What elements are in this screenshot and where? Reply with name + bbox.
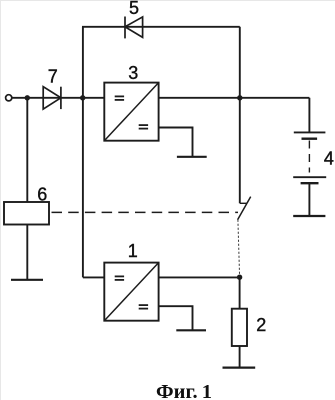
battery 4 xyxy=(293,132,326,215)
wire right branch vertical xyxy=(239,27,241,204)
svg-text:Фиг. 1: Фиг. 1 xyxy=(156,381,212,400)
wire into unit 1 xyxy=(83,276,104,278)
ground of unit 6 xyxy=(11,279,43,281)
resistor 2 xyxy=(232,309,247,346)
junction D xyxy=(237,275,242,280)
wire input rail xyxy=(12,97,104,99)
svg-text:6: 6 xyxy=(37,184,47,204)
wire unit 3 lower output xyxy=(159,128,193,157)
svg-text:5: 5 xyxy=(129,0,139,18)
ground of battery 4 xyxy=(293,215,325,217)
wire unit 1 output xyxy=(159,276,240,278)
wire junction D to resistor 2 xyxy=(239,277,241,309)
diode 5 xyxy=(125,17,143,39)
svg-text:7: 7 xyxy=(48,67,58,87)
junction A xyxy=(25,95,30,100)
ground of unit 1 xyxy=(176,329,206,331)
ground of resistor 2 xyxy=(223,367,256,369)
junction C xyxy=(237,95,242,100)
wire resistor 2 to ground xyxy=(239,346,241,367)
wire junction A to unit 6 xyxy=(26,98,28,202)
mechanical linkage (dashed) xyxy=(52,211,239,213)
ground of unit 3 xyxy=(177,156,207,158)
svg-text:1: 1 xyxy=(128,241,138,261)
switch contact tick xyxy=(240,202,247,204)
converter U1 xyxy=(104,263,158,321)
wire left branch vertical xyxy=(82,27,84,278)
input terminal xyxy=(6,95,12,101)
wire unit 1 lower output xyxy=(159,306,193,330)
switch blade xyxy=(238,197,251,220)
diode 7 xyxy=(43,87,61,109)
wire switch to junction D (faint) xyxy=(238,220,240,277)
unit 6 xyxy=(4,202,49,225)
junction B xyxy=(80,95,85,100)
svg-text:3: 3 xyxy=(128,63,138,83)
converter U3 xyxy=(104,83,158,141)
wire top rail xyxy=(82,26,240,28)
wire to battery 4 xyxy=(308,98,310,133)
wire unit 6 to ground xyxy=(26,225,28,280)
wire unit 3 output rail xyxy=(159,97,310,99)
svg-text:4: 4 xyxy=(324,148,334,168)
svg-text:2: 2 xyxy=(256,315,266,335)
